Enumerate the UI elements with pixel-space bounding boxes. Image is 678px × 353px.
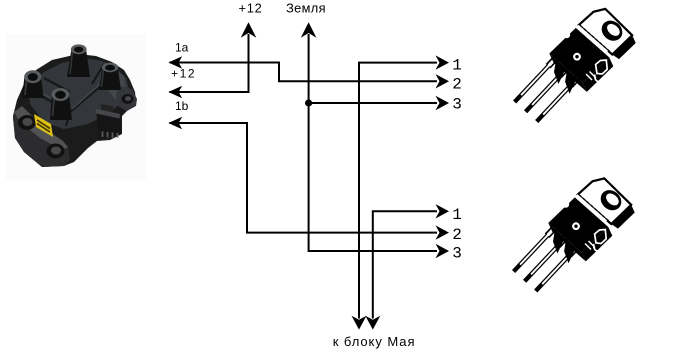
svg-text:+12: +12 (171, 66, 196, 80)
wire upper pin 3 from ground junction (309, 102, 437, 104)
connector block (96, 109, 121, 139)
svg-text:Земля: Земля (286, 1, 326, 16)
svg-text:1a: 1a (175, 41, 189, 55)
wire ground down to lower-3 (309, 34, 437, 251)
arrowhead up Земля (301, 22, 317, 37)
svg-text:2: 2 (452, 75, 462, 93)
HV tower D (front centre) (50, 95, 72, 121)
svg-text:+12: +12 (238, 1, 262, 16)
svg-text:1: 1 (452, 206, 462, 224)
coil top face (28, 58, 129, 129)
yellow warning label (34, 114, 53, 137)
arrowhead down Maya-left (352, 316, 367, 330)
wire 1b to lower pin 2 (170, 123, 438, 233)
HV tower B (back middle) (67, 49, 90, 77)
flange hole upper-left (18, 115, 36, 130)
transistor Q2 (TO-220, bottom) (514, 178, 635, 291)
svg-text:1: 1 (452, 56, 462, 74)
arrowhead right upper-1 (436, 55, 450, 69)
transistor Q1 (TO-220, top) (515, 9, 636, 122)
arrowhead up +12 (241, 22, 257, 37)
arrowhead left +12 (to coil) (168, 86, 182, 99)
svg-text:1b: 1b (175, 99, 189, 113)
arrowhead down Maya-right (365, 316, 380, 330)
mounting flange bottom-left (13, 106, 70, 167)
flange hole lower-right (47, 144, 65, 159)
wire 1a to upper pin 2 (170, 63, 438, 82)
wire upper pin 1 down to Maya block (359, 63, 437, 319)
svg-text:2: 2 (452, 226, 462, 244)
top face ridges (34, 58, 108, 126)
ignition coil module photo (approximation) (6, 34, 146, 180)
arrowhead right lower-1 (436, 204, 450, 218)
connector pins (103, 132, 118, 139)
wire +12 supply (170, 34, 249, 92)
arrowhead left 1a (168, 56, 182, 69)
photo background halo (6, 34, 146, 180)
arrowhead left 1b (168, 117, 182, 130)
arrowhead right upper-2 (436, 74, 450, 88)
arrowhead right lower-2 (436, 225, 450, 239)
right flange with hole (116, 86, 137, 111)
wire lower pin 1 down to Maya block (373, 211, 437, 318)
arrowhead right upper-3 (436, 96, 450, 110)
svg-text:3: 3 (452, 96, 462, 114)
arrowhead right lower-3 (436, 244, 450, 258)
svg-text:к блоку Мая: к блоку Мая (333, 334, 416, 349)
coil body silhouette (13, 54, 136, 167)
HV tower A (left) (22, 76, 44, 98)
HV tower C (right) (99, 67, 121, 90)
junction node dot (305, 99, 312, 106)
svg-text:3: 3 (452, 244, 462, 262)
